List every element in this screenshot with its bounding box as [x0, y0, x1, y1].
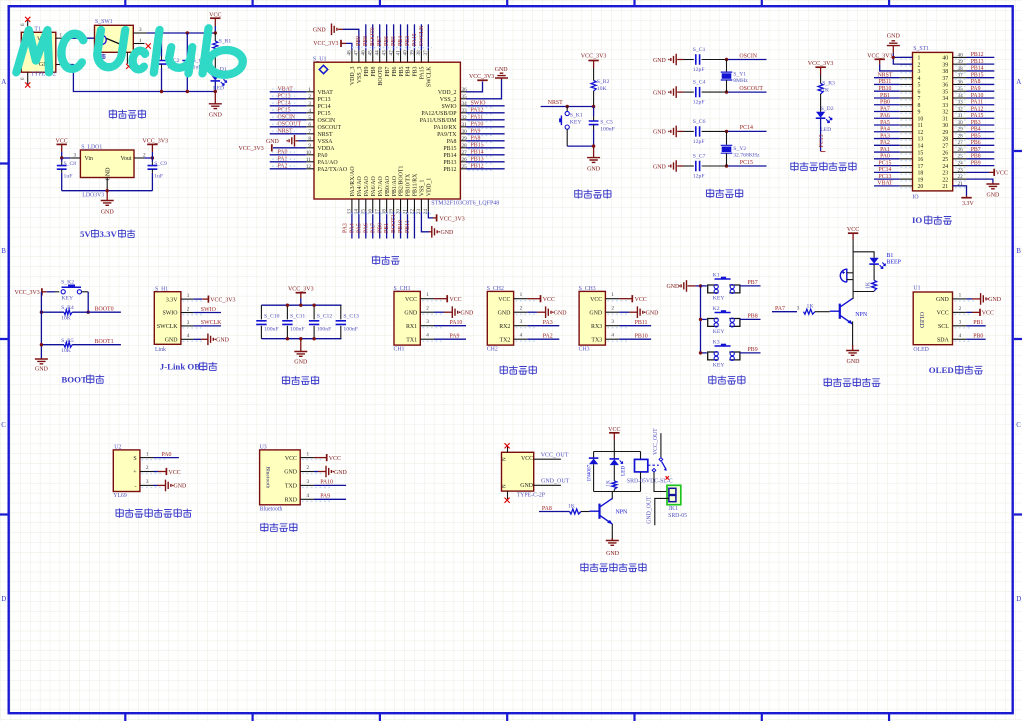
wire LDO ground rail — [62, 190, 153, 192]
zone tick marks bottom — [125, 714, 889, 721]
svg-text:PC13: PC13 — [819, 134, 825, 147]
svg-text:S: S — [133, 456, 136, 462]
svg-text:PB10/TX: PB10/TX — [406, 173, 412, 196]
svg-text:PB12: PB12 — [971, 52, 984, 58]
svg-text:4: 4 — [959, 333, 962, 339]
svg-text:OLED: OLED — [913, 347, 928, 353]
pin BT 1 VCC — [300, 457, 314, 459]
capacitor S_C7 12pF — [684, 165, 694, 167]
svg-text:S_R4: S_R4 — [61, 305, 74, 311]
MCU right net wires and labels — [466, 101, 505, 170]
switch K2 KEY — [708, 319, 719, 327]
wire net PA0 to MCU — [270, 154, 307, 156]
svg-text:S_C13: S_C13 — [343, 313, 359, 319]
svg-text:GND: GND — [101, 210, 115, 216]
svg-text:PB11: PB11 — [635, 320, 648, 326]
svg-text:2: 2 — [959, 306, 962, 312]
svg-text:PB15: PB15 — [443, 146, 456, 152]
svg-text:Bluetooth: Bluetooth — [264, 466, 270, 488]
pin CH3 1 VCC — [605, 298, 619, 300]
svg-text:6: 6 — [918, 89, 921, 95]
svg-text:12pF: 12pF — [693, 174, 705, 180]
wire net PB9 — [740, 352, 761, 354]
svg-text:PB12: PB12 — [471, 164, 484, 170]
svg-text:3: 3 — [611, 319, 614, 325]
svg-text:PB4: PB4 — [971, 127, 981, 133]
svg-text:BEEP: BEEP — [887, 259, 902, 265]
svg-text:PB13: PB13 — [971, 59, 984, 65]
svg-text:35: 35 — [942, 89, 948, 95]
pin S_LDO1 3 Vin — [70, 157, 80, 159]
module U3 Bluetooth body — [260, 450, 301, 505]
svg-text:CH3: CH3 — [579, 347, 590, 353]
pin S_T1 bottom no-connect — [27, 72, 29, 84]
svg-text:GND: GND — [334, 470, 348, 476]
svg-text:GND: GND — [461, 311, 475, 317]
svg-text:GND: GND — [294, 360, 308, 366]
svg-text:PA4/AO: PA4/AO — [357, 175, 363, 196]
svg-text:PB0: PB0 — [973, 333, 983, 339]
pin S_T1 2 GND — [56, 64, 65, 66]
svg-text:PB5: PB5 — [971, 133, 981, 139]
svg-text:S_C6: S_C6 — [693, 119, 706, 125]
svg-text:S_C12: S_C12 — [317, 313, 333, 319]
svg-text:1: 1 — [187, 293, 190, 299]
svg-text:PA6/AO: PA6/AO — [371, 175, 377, 196]
svg-text:C: C — [1016, 421, 1021, 429]
svg-text:VCC_3V3: VCC_3V3 — [469, 74, 494, 80]
svg-text:PA5/AO: PA5/AO — [364, 175, 370, 196]
capacitor S_C13 100nF — [340, 305, 342, 319]
svg-text:1K: 1K — [568, 504, 576, 510]
svg-text:PC13: PC13 — [278, 94, 291, 100]
wire net PC15 to MCU — [270, 112, 307, 114]
svg-text:GND: GND — [35, 367, 49, 373]
svg-text:RXD: RXD — [285, 498, 298, 504]
svg-text:PB11: PB11 — [879, 79, 892, 85]
power VCC header pin23 — [967, 171, 990, 173]
svg-text:GND: GND — [887, 34, 901, 40]
svg-text:PC14: PC14 — [278, 101, 291, 107]
svg-text:PA10: PA10 — [320, 480, 333, 486]
svg-text:SWCLK: SWCLK — [157, 324, 178, 330]
svg-text:VCC: VCC — [543, 297, 555, 303]
pin BT 2 GND — [300, 471, 314, 473]
wire NRST node — [541, 106, 594, 108]
capacitor S_C4 12pF — [684, 91, 694, 93]
svg-text:2: 2 — [307, 465, 310, 471]
svg-text:5: 5 — [918, 83, 921, 89]
MCU bottom pin stubs — [352, 199, 428, 212]
svg-text:NRST: NRST — [548, 100, 563, 106]
svg-text:NPN: NPN — [616, 510, 629, 516]
svg-text:21: 21 — [942, 184, 948, 190]
pin TYPE-C-2P bottom no-connect — [507, 491, 509, 499]
wire GND_OUT to JK1 — [655, 498, 669, 525]
ground GND header pin22 — [967, 179, 993, 182]
svg-text:PB2/BOOT1: PB2/BOOT1 — [399, 165, 405, 196]
svg-text:KEY: KEY — [61, 295, 73, 301]
svg-text:1: 1 — [139, 38, 142, 44]
no-connect NC contact — [666, 476, 669, 479]
LED in alarm — [870, 258, 879, 264]
svg-text:S_SW1: S_SW1 — [95, 19, 113, 25]
crystal S_Y1 8MHz — [726, 60, 728, 72]
svg-text:3: 3 — [74, 152, 77, 158]
wire emitter to gnd — [852, 321, 854, 349]
junction at C2 top — [160, 31, 163, 34]
svg-text:4: 4 — [520, 333, 523, 339]
svg-text:3: 3 — [520, 319, 523, 325]
svg-text:BOOT0: BOOT0 — [378, 66, 384, 85]
svg-text:3: 3 — [307, 479, 310, 485]
svg-text:38: 38 — [942, 69, 948, 75]
svg-text:1: 1 — [426, 292, 429, 298]
wire net OSCOUT — [727, 91, 767, 93]
svg-text:GND_OUT: GND_OUT — [647, 496, 653, 524]
svg-text:PB3: PB3 — [971, 120, 981, 126]
svg-text:1: 1 — [611, 292, 614, 298]
svg-text:LDO3V3: LDO3V3 — [82, 193, 104, 199]
svg-text:PA1: PA1 — [880, 147, 890, 153]
svg-text:D: D — [1016, 595, 1021, 603]
svg-text:PA9: PA9 — [450, 333, 460, 339]
pin YL69 1 S net PA0 — [140, 457, 154, 459]
wire relay top rail — [594, 451, 641, 453]
svg-text:VCC_3V3: VCC_3V3 — [15, 290, 40, 296]
wire net VBAT to MCU — [270, 91, 307, 93]
power VCC_3V3 at VDD_1 — [428, 212, 433, 218]
svg-text:2: 2 — [611, 306, 614, 312]
svg-text:32.768KHz: 32.768KHz — [733, 153, 760, 159]
pin OLED 2 VCC — [953, 311, 967, 313]
svg-text:PA6: PA6 — [880, 113, 890, 119]
svg-text:PC14: PC14 — [879, 167, 892, 173]
svg-text:GND: GND — [987, 193, 1001, 199]
svg-text:S_Y2: S_Y2 — [733, 146, 746, 152]
connector TYPE-C-2P body — [502, 452, 534, 491]
svg-text:VSSA: VSSA — [318, 139, 334, 145]
connector CH3 — [579, 291, 605, 345]
MCU bottom pin wires — [352, 212, 415, 239]
svg-text:RX3: RX3 — [591, 324, 602, 330]
wire NO contact to JK1 — [654, 472, 667, 491]
svg-text:PC13: PC13 — [318, 97, 331, 103]
svg-text:31: 31 — [958, 113, 964, 119]
MCU U1 STM32F103C8T6 body — [314, 62, 460, 199]
svg-text:K1: K1 — [713, 272, 720, 278]
svg-text:PA0: PA0 — [318, 153, 328, 159]
svg-text:20: 20 — [918, 184, 924, 190]
svg-text:PA7: PA7 — [370, 223, 376, 233]
svg-text:GND: GND — [653, 164, 667, 170]
capacitor S_C3 1uF — [186, 33, 188, 57]
junction PC15 — [725, 164, 728, 167]
svg-text:PA12: PA12 — [471, 108, 484, 114]
svg-text:PA9: PA9 — [471, 129, 481, 135]
svg-text:PB9: PB9 — [356, 36, 362, 46]
header pin numbers — [918, 56, 949, 190]
svg-text:GND: GND — [653, 130, 667, 136]
svg-text:J-Link OB: J-Link OB — [160, 362, 200, 372]
svg-text:PA8: PA8 — [471, 136, 481, 142]
svg-text:PC14: PC14 — [318, 104, 331, 110]
svg-text:NPN: NPN — [855, 312, 868, 318]
svg-text:VCC: VCC — [608, 427, 620, 433]
wire K2 to BOOT0 row — [87, 292, 89, 312]
pin CH2 4 PA2 — [514, 338, 528, 340]
svg-text:S_C1: S_C1 — [693, 47, 706, 53]
svg-text:30: 30 — [958, 120, 964, 126]
junction LED bottom rail — [214, 90, 217, 93]
pin S_H1 1 to VCC_3V3 — [181, 298, 194, 300]
svg-text:10K: 10K — [597, 86, 608, 92]
title 晶振电路 — [706, 189, 714, 198]
svg-text:VDDA: VDDA — [318, 146, 336, 152]
svg-text:1: 1 — [918, 56, 921, 62]
svg-text:SWIO: SWIO — [201, 307, 217, 313]
svg-text:VCC_3V3: VCC_3V3 — [288, 287, 314, 293]
svg-text:100nF: 100nF — [290, 326, 305, 332]
svg-text:4: 4 — [611, 333, 614, 339]
svg-text:VCC_OUT: VCC_OUT — [541, 452, 569, 458]
svg-text:S_C4: S_C4 — [693, 80, 706, 86]
svg-text:4: 4 — [307, 493, 310, 499]
svg-text:8: 8 — [918, 103, 921, 109]
title 蓝牙模块 — [260, 523, 268, 532]
svg-text:Vout: Vout — [120, 156, 131, 162]
svg-text:PC15: PC15 — [278, 108, 291, 114]
svg-text:GND: GND — [554, 311, 568, 317]
svg-text:100nF: 100nF — [264, 326, 279, 332]
svg-text:B: B — [1, 247, 6, 255]
svg-text:27: 27 — [958, 140, 964, 146]
svg-text:GND: GND — [209, 113, 223, 119]
svg-text:KEY: KEY — [713, 295, 725, 301]
ground GND at VSS_1 — [421, 212, 429, 232]
svg-text:3: 3 — [146, 479, 149, 485]
svg-text:PB1: PB1 — [384, 223, 390, 233]
title 继电器控制电路 — [580, 563, 588, 572]
header left pin stubs — [900, 57, 913, 185]
label S_SW1 name 开关 — [95, 54, 100, 59]
svg-text:3: 3 — [959, 319, 962, 325]
capacitor S_C9 1uF — [151, 158, 153, 162]
junction PC14 — [725, 130, 728, 133]
ground GND relay — [611, 538, 613, 541]
switch K3 KEY — [708, 352, 719, 360]
svg-text:SWIO: SWIO — [162, 311, 178, 317]
svg-text:GND: GND — [646, 311, 660, 317]
svg-text:PA4: PA4 — [349, 223, 355, 233]
svg-text:PB7: PB7 — [748, 280, 758, 286]
svg-text:PA11/USB/DM: PA11/USB/DM — [420, 118, 458, 124]
connector S_H1 J-Link — [154, 292, 181, 345]
svg-text:2: 2 — [520, 306, 523, 312]
pin YL69 3 - GND — [140, 484, 154, 486]
svg-text:S_Y1: S_Y1 — [733, 72, 746, 78]
ghost marks under MCU — [350, 213, 432, 215]
svg-text:S_CH3: S_CH3 — [579, 286, 596, 292]
wire net PB7 — [740, 285, 761, 287]
svg-text:B: B — [1016, 247, 1021, 255]
svg-text:10K: 10K — [61, 316, 72, 322]
svg-text:PB5: PB5 — [399, 66, 405, 76]
pin OLED 1 GND — [953, 298, 967, 300]
svg-text:OSCIN: OSCIN — [318, 118, 336, 124]
wire net OSCIN — [727, 59, 767, 61]
svg-text:PB9: PB9 — [748, 347, 758, 353]
svg-text:PA9: PA9 — [320, 494, 330, 500]
wire net PA2 to MCU — [270, 168, 307, 170]
svg-text:PB8: PB8 — [971, 154, 981, 160]
svg-text:1uF: 1uF — [64, 174, 73, 180]
svg-text:A: A — [1016, 78, 1021, 86]
svg-text:PC15: PC15 — [318, 111, 331, 117]
svg-text:7: 7 — [918, 96, 921, 102]
ground GND power circuit — [214, 92, 216, 104]
junction Vout node — [151, 156, 154, 159]
svg-text:23: 23 — [958, 167, 964, 173]
buzzer B1 branch — [852, 252, 854, 292]
pin VCC to VCC_OUT — [534, 458, 561, 460]
svg-text:Bluetooth: Bluetooth — [260, 507, 283, 513]
capacitor S_C11 100nF — [286, 305, 288, 319]
junction C12 bottom — [312, 337, 315, 340]
svg-text:PA9: PA9 — [971, 86, 981, 92]
svg-text:5V: 5V — [80, 229, 91, 239]
capacitor S_C6 12pF — [684, 130, 694, 132]
wire VCC to switch — [65, 37, 95, 39]
wire net PC14 — [727, 130, 767, 132]
pin S_T1 top no-connect — [27, 21, 29, 33]
svg-text:33: 33 — [942, 103, 948, 109]
wire collector node — [611, 492, 613, 500]
svg-text:1K: 1K — [866, 281, 872, 289]
svg-text:PA3/RX/AO: PA3/RX/AO — [350, 166, 356, 197]
header left net wires — [874, 72, 900, 186]
switch S_K1 KEY — [566, 107, 568, 112]
svg-text:PB1/AO: PB1/AO — [392, 175, 398, 196]
title 土壤湿度检测模块 — [115, 508, 123, 517]
pin S_SW1 3 — [133, 32, 147, 34]
regulator S_LDO1 LDO3V3 — [80, 150, 134, 178]
svg-text:BOOT1: BOOT1 — [95, 339, 114, 345]
svg-text:GND: GND — [936, 297, 950, 303]
svg-text:S_K1: S_K1 — [570, 113, 583, 119]
MCU top pin wires — [366, 24, 429, 50]
svg-text:PA7/AO: PA7/AO — [378, 175, 384, 196]
svg-text:PA10/RX: PA10/RX — [434, 125, 457, 131]
logo MCUclub — [16, 28, 245, 75]
MCU internal pin names — [318, 66, 458, 197]
svg-text:3.3V: 3.3V — [100, 229, 118, 239]
svg-text:GND: GND — [266, 139, 280, 145]
zone tick marks right — [1014, 151, 1022, 515]
svg-text:LED: LED — [621, 466, 627, 476]
svg-text:PB7: PB7 — [971, 147, 981, 153]
zone tick marks left — [0, 164, 8, 515]
svg-text:PA8: PA8 — [971, 79, 981, 85]
svg-text:GND: GND — [653, 90, 667, 96]
svg-text:S_R2: S_R2 — [597, 79, 610, 85]
svg-text:PB8: PB8 — [748, 314, 758, 320]
junction filter top — [299, 304, 302, 307]
junction OSCOUT — [725, 90, 728, 93]
wire trunk to K3 — [701, 352, 707, 354]
switch K1 KEY — [708, 285, 719, 293]
svg-text:34: 34 — [942, 96, 948, 102]
svg-text:TX3: TX3 — [591, 337, 602, 343]
pin S_T1 1 VCC — [56, 37, 65, 39]
svg-text:37: 37 — [942, 76, 948, 82]
pin CH3 3 PB11 — [605, 325, 619, 327]
svg-text:PB7: PB7 — [385, 66, 391, 76]
pin CH2 1 VCC — [514, 298, 528, 300]
svg-text:PB6: PB6 — [384, 36, 390, 46]
svg-text:PB8: PB8 — [371, 66, 377, 76]
svg-text:VSS_2: VSS_2 — [440, 97, 457, 103]
connector JK1 SRD-05 — [667, 485, 681, 504]
junction cap-gnd — [592, 144, 595, 147]
svg-text:S_C10: S_C10 — [264, 313, 280, 319]
pin OLED 3 SCL net PB1 — [953, 325, 967, 327]
svg-text:LED: LED — [820, 127, 831, 133]
junction header gnd — [892, 56, 895, 59]
svg-text:VCC_3V3: VCC_3V3 — [210, 297, 235, 303]
svg-text:GND: GND — [988, 297, 1002, 303]
svg-text:PB12: PB12 — [443, 167, 456, 173]
svg-text:GND: GND — [498, 310, 512, 316]
svg-text:SDA: SDA — [937, 337, 950, 343]
svg-text:14: 14 — [918, 144, 924, 150]
svg-text:16: 16 — [918, 157, 924, 163]
svg-text:36: 36 — [942, 83, 948, 89]
svg-text:K2: K2 — [713, 306, 720, 312]
svg-text:3: 3 — [426, 319, 429, 325]
svg-text:PA9/TX: PA9/TX — [437, 132, 457, 138]
svg-text:GND: GND — [165, 338, 179, 344]
junction Vin node — [60, 156, 63, 159]
svg-text:PB15: PB15 — [971, 72, 984, 78]
svg-text:PA6: PA6 — [363, 223, 369, 233]
pin BT 3 TXD net PA10 — [300, 484, 314, 486]
svg-text:SRD-05: SRD-05 — [668, 513, 687, 519]
capacitor S_C2 100nF — [161, 33, 163, 57]
junction keys K1 — [699, 284, 702, 287]
title 主芯片 — [372, 256, 380, 265]
junction at C3 top — [186, 31, 189, 34]
svg-text:VCC_3V3: VCC_3V3 — [239, 146, 264, 152]
pin TYPE-C-2P top no-connect — [507, 447, 509, 453]
svg-text:A: A — [1, 78, 6, 86]
pin CH1 2 GND — [420, 311, 434, 313]
svg-text:PB3: PB3 — [413, 66, 419, 76]
svg-text:PA0: PA0 — [162, 452, 172, 458]
svg-text:U3: U3 — [260, 445, 267, 451]
svg-text:GND: GND — [106, 167, 112, 181]
svg-text:NRST: NRST — [878, 72, 893, 78]
svg-text:VCC: VCC — [450, 297, 462, 303]
svg-text:NRST: NRST — [318, 132, 333, 138]
svg-text:PA2/TX/AO: PA2/TX/AO — [318, 167, 348, 173]
pin S_H1 3 SWCLK — [181, 325, 194, 327]
wire alarm bottom node — [853, 291, 874, 293]
power VCC_3V3 at VDDA — [273, 147, 306, 149]
ground GND filter — [300, 339, 302, 352]
svg-text:TX2: TX2 — [500, 337, 511, 343]
svg-text:S_R3: S_R3 — [822, 81, 835, 87]
